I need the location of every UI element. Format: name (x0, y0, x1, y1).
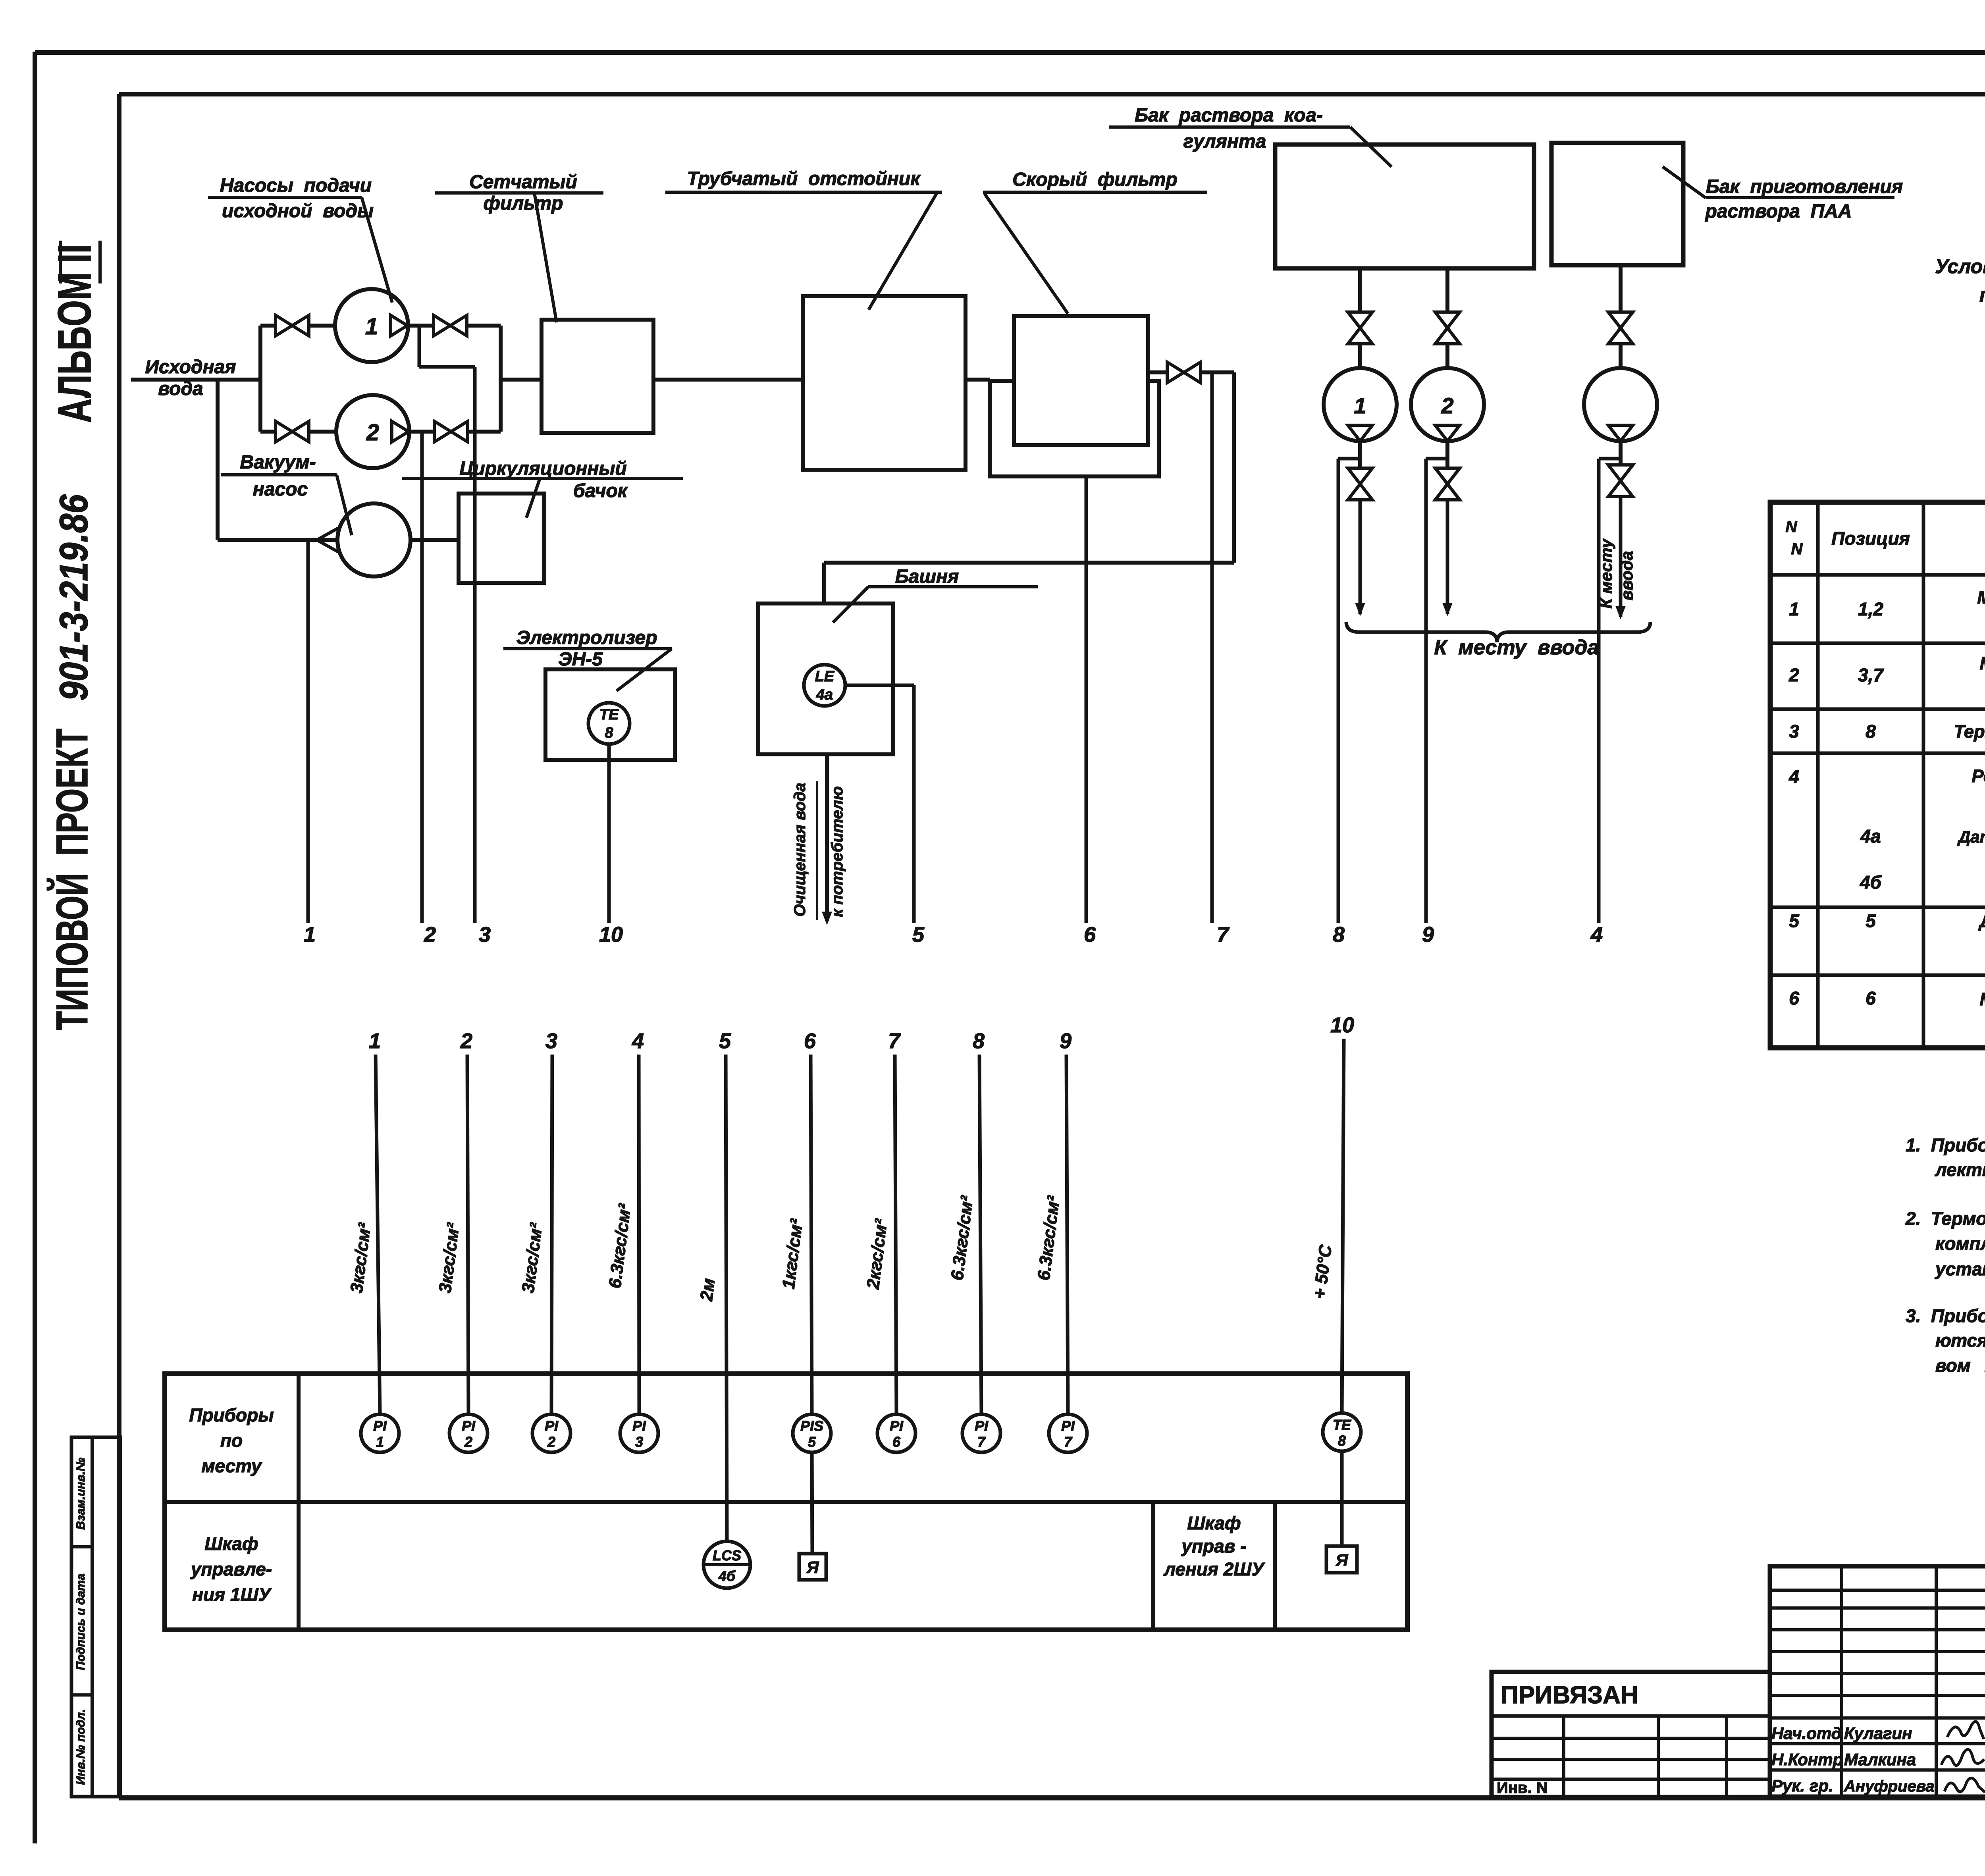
svg-text:по ОСТу 36. 27- 77.: по ОСТу 36. 27- 77. (1979, 284, 1985, 306)
svg-text:1. Прибор поз. 6 поставляет: 1. Прибор поз. 6 поставляется комп- (1906, 1135, 1985, 1155)
svg-text:901-3-219.86: 901-3-219.86 (52, 494, 96, 701)
svg-text:3: 3 (1789, 721, 1799, 742)
svg-text:4а: 4а (1860, 826, 1881, 846)
valve below pump (1348, 468, 1372, 484)
svg-text:Термометр технический: Термометр технический (1954, 721, 1985, 742)
svg-text:3: 3 (545, 1029, 557, 1053)
svg-text:5: 5 (1866, 910, 1876, 931)
pipe strainer to settler (653, 378, 803, 382)
svg-text:PI: PI (632, 1418, 646, 1434)
pipe discharge header (499, 326, 503, 432)
svg-text:PI: PI (462, 1418, 476, 1434)
impulse jog (1338, 457, 1360, 461)
svg-text:6: 6 (892, 1434, 901, 1450)
instrument LCS 4б (703, 1541, 750, 1588)
svg-text:ления 2ШУ: ления 2ШУ (1163, 1559, 1265, 1579)
leader to strainer (534, 193, 557, 322)
pipe settler to fast filter (966, 378, 990, 382)
svg-text:2: 2 (464, 1434, 472, 1450)
svg-text:АЛЬБОМ II: АЛЬБОМ II (48, 244, 101, 423)
svg-text:8: 8 (605, 725, 613, 741)
svg-text:1: 1 (369, 1029, 381, 1053)
svg-text:7: 7 (1064, 1434, 1073, 1450)
svg-text:Насосы подачи: Насосы подачи (220, 175, 372, 196)
PAA tank (1551, 143, 1683, 265)
fast filter outer box (990, 381, 1159, 476)
svg-text:ввода: ввода (1617, 551, 1636, 601)
svg-text:Очищенная вода: Очищенная вода (791, 783, 809, 916)
leader to electrolyzer (617, 649, 672, 691)
svg-text:Манометр технический,: Манометр технический, (1977, 587, 1985, 607)
outer border top (35, 50, 1985, 55)
svg-text:7: 7 (1217, 923, 1230, 947)
pipe pump2 suction (260, 430, 276, 434)
svg-text:установкой ЭН-5.: установкой ЭН-5. (1935, 1259, 1985, 1279)
coagulant tank (1275, 145, 1534, 268)
svg-text:Манометр технический: Манометр технический (1980, 653, 1985, 673)
instrument PI 2b (532, 1414, 570, 1452)
instrument PI 2 (449, 1414, 488, 1452)
svg-text:Инв. N: Инв. N (1497, 1779, 1548, 1797)
svg-text:Ануфриева: Ануфриева (1844, 1778, 1935, 1795)
svg-text:Я: Я (1336, 1551, 1349, 1569)
svg-text:Скорый фильтр: Скорый фильтр (1012, 169, 1178, 190)
svg-text:1: 1 (376, 1434, 384, 1450)
pump outlet cone (1435, 425, 1460, 441)
impulse line 6 (1085, 476, 1088, 923)
svg-text:3кгс/см²: 3кгс/см² (435, 1221, 463, 1294)
svg-text:9: 9 (1060, 1029, 1072, 1053)
fast filter inner box (1014, 316, 1148, 445)
leader to pump 1 (362, 197, 392, 303)
impulse line 9 (1424, 459, 1428, 923)
svg-text:ПРИВЯЗАН: ПРИВЯЗАН (1501, 1681, 1638, 1709)
pipe down to tower line (1232, 372, 1236, 563)
valve filter outlet (1167, 362, 1184, 383)
left inventory strip (71, 1437, 120, 1797)
svg-text:исходной воды: исходной воды (222, 201, 374, 222)
leader to coagulant tank (1350, 127, 1391, 167)
svg-text:6: 6 (1866, 988, 1876, 1008)
inner frame top (119, 92, 1985, 96)
svg-text:1,2: 1,2 (1858, 599, 1883, 619)
svg-text:6: 6 (1084, 923, 1096, 947)
svg-text:8: 8 (1866, 721, 1876, 742)
pump outlet cone (1608, 425, 1633, 441)
lamp box Я (2ШУ) (1326, 1546, 1357, 1573)
svg-text:8: 8 (1338, 1433, 1346, 1449)
svg-text:Трубчатый отстойник: Трубчатый отстойник (687, 168, 921, 189)
svg-text:3кгс/см²: 3кгс/см² (518, 1221, 546, 1294)
svg-text:Манометр технический: Манометр технический (1980, 989, 1985, 1009)
svg-text:PI: PI (975, 1418, 989, 1434)
svg-text:N: N (1786, 518, 1798, 536)
svg-text:2: 2 (1788, 665, 1799, 685)
svg-text:ния 1ШУ: ния 1ШУ (192, 1584, 272, 1605)
valve tank outlet (1435, 312, 1460, 328)
svg-text:8: 8 (973, 1029, 985, 1053)
svg-text:Условные обозначения приборо: Условные обозначения приборов (1935, 255, 1985, 278)
svg-text:4б: 4б (718, 1568, 736, 1584)
svg-text:6.3кгс/см²: 6.3кгс/см² (605, 1202, 635, 1290)
svg-text:Датчики: 2м - 1шт., 1.6м - 1шт: Датчики: 2м - 1шт., 1.6м - 1шт, (1957, 827, 1985, 846)
pipe filter outlet (1148, 370, 1167, 374)
dosing line with arrow (1619, 497, 1623, 617)
valve below pump (1435, 468, 1460, 484)
svg-text:1: 1 (1354, 393, 1366, 418)
svg-text:Регулятор- сигнализатор: Регулятор- сигнализатор (1972, 766, 1985, 786)
tubular settler box (803, 296, 966, 470)
pipe tank outlet (1358, 268, 1362, 312)
svg-text:Кулагин: Кулагин (1844, 1724, 1912, 1743)
svg-text:10: 10 (599, 923, 623, 947)
svg-text:10: 10 (1330, 1013, 1354, 1037)
pump1 discharge cone (391, 315, 407, 336)
instrument PI 1 (361, 1414, 399, 1452)
svg-text:Подпись и дата: Подпись и дата (74, 1573, 87, 1670)
stub line10 to lamp (1340, 1451, 1344, 1546)
dosing pump 2 (1411, 368, 1484, 441)
svg-text:7: 7 (977, 1434, 986, 1450)
valve below pump (1608, 465, 1633, 481)
tower drain pipe (825, 754, 829, 921)
pump2 discharge cone (392, 421, 409, 442)
svg-text:Исходная: Исходная (145, 357, 236, 378)
impulse line 3 (418, 326, 421, 367)
title block привязан (1492, 1672, 1770, 1797)
svg-text:6.3кгс/см²: 6.3кгс/см² (1034, 1194, 1064, 1282)
impulse line 1 (306, 540, 310, 923)
pipe tank outlet (1445, 268, 1449, 312)
svg-text:месту: месту (201, 1456, 262, 1476)
leader to circulation tank (526, 478, 540, 518)
dosing pump 1 (1324, 368, 1397, 441)
pump outlet cone (1348, 425, 1372, 441)
svg-text:1: 1 (304, 923, 316, 947)
svg-text:6.3кгс/см²: 6.3кгс/см² (947, 1194, 977, 1282)
svg-text:3: 3 (635, 1434, 643, 1450)
impulse line 7 (1210, 372, 1214, 923)
svg-text:К месту ввода: К месту ввода (1434, 636, 1599, 659)
leader to PAA tank (1663, 167, 1706, 198)
svg-text:Инв.№ подл.: Инв.№ подл. (74, 1709, 87, 1785)
level transmitter LE 4a (804, 665, 845, 706)
svg-text:Малкина: Малкина (1844, 1750, 1916, 1769)
pump 1 (335, 289, 408, 362)
pipe vacuum suction vertical (216, 380, 220, 540)
svg-text:насос: насос (253, 479, 308, 500)
svg-text:Шкаф: Шкаф (1187, 1513, 1241, 1533)
pipe pump1 suction (260, 324, 276, 328)
pipe main inlet (131, 378, 260, 382)
svg-text:5: 5 (719, 1029, 731, 1053)
brace к месту ввода (1346, 622, 1650, 642)
instrument TE 8 (1323, 1413, 1361, 1451)
svg-text:2. Термометр поз. 8 поставл: 2. Термометр поз. 8 поставляется (1905, 1208, 1985, 1229)
svg-text:4: 4 (1590, 923, 1603, 947)
svg-text:бачок: бачок (573, 480, 628, 501)
svg-text:9: 9 (1422, 923, 1434, 947)
dosing line with arrow (1359, 500, 1362, 614)
svg-text:5: 5 (808, 1434, 816, 1450)
inner frame bottom (119, 1795, 1985, 1801)
outer border left (33, 52, 37, 1843)
pipe to strainer (501, 378, 542, 382)
pipe pump1 discharge (407, 324, 434, 328)
svg-text:Циркуляционный: Циркуляционный (459, 458, 626, 479)
pipe into tower top (822, 563, 826, 604)
svg-text:Я: Я (806, 1558, 819, 1577)
svg-text:4: 4 (1788, 766, 1799, 787)
pipe pump down (1358, 441, 1362, 468)
valve pump2 discharge (434, 421, 451, 442)
svg-text:Вакуум-: Вакуум- (240, 452, 316, 473)
impulse line 2 (420, 432, 424, 923)
pipe vacuum suction horizontal (218, 538, 338, 542)
svg-text:ются комплектно с устройст-: ются комплектно с устройст- (1935, 1330, 1985, 1351)
svg-text:4а: 4а (816, 686, 833, 703)
impulse line 10 (607, 744, 611, 923)
pipe tank outlet (1619, 265, 1623, 312)
svg-text:Бак раствора коа-: Бак раствора коа- (1135, 105, 1323, 126)
pipe to tower (824, 561, 1234, 565)
dosing pump PAA (1584, 368, 1657, 441)
vacuum pump (337, 503, 410, 576)
impulse line 5 (912, 685, 916, 923)
svg-text:PI: PI (890, 1418, 904, 1434)
svg-text:7: 7 (888, 1029, 901, 1053)
svg-text:+ 50°C: + 50°C (1310, 1243, 1336, 1300)
svg-text:8: 8 (1333, 923, 1345, 947)
svg-text:вом ЛУР.: вом ЛУР. (1935, 1355, 1985, 1376)
svg-text:1: 1 (1789, 599, 1799, 619)
svg-text:к потребителю: к потребителю (829, 786, 846, 917)
svg-text:N: N (1791, 540, 1803, 558)
leader to fast filter (985, 194, 1068, 314)
svg-text:ТИПОВОЙ ПРОЕКТ: ТИПОВОЙ ПРОЕКТ (47, 729, 97, 1030)
valve tank outlet (1348, 312, 1372, 328)
svg-text:раствора ПАА: раствора ПАА (1704, 201, 1852, 222)
leader to tower (833, 587, 868, 623)
valve pump1 suction (276, 315, 292, 336)
stub LE to line5 (845, 684, 914, 687)
svg-text:2: 2 (547, 1434, 555, 1450)
svg-text:PIS: PIS (800, 1418, 823, 1434)
pipe vacuum to circulation tank (410, 538, 459, 542)
svg-text:фильтр: фильтр (484, 193, 563, 214)
impulse line 4 (1597, 459, 1601, 923)
svg-text:3кгс/см²: 3кгс/см² (347, 1221, 374, 1294)
instrument PI 7 (962, 1414, 1000, 1452)
vacuum pump inlet cone (317, 528, 338, 552)
svg-text:PI: PI (1061, 1418, 1075, 1434)
leader to vacuum pump (337, 475, 352, 535)
impulse jog (1599, 457, 1621, 461)
tower box (758, 603, 893, 754)
valve pump1 discharge (434, 315, 450, 336)
svg-text:TE: TE (1333, 1417, 1351, 1433)
svg-text:2: 2 (424, 923, 436, 947)
svg-text:PI: PI (373, 1418, 387, 1434)
svg-text:Приборы: Приборы (189, 1405, 274, 1425)
instrument table (1770, 502, 1985, 1048)
svg-text:Рук. гр.: Рук. гр. (1771, 1776, 1833, 1795)
svg-text:Нач.отд: Нач.отд (1771, 1724, 1842, 1743)
title block central grid (1770, 1566, 1985, 1797)
svg-text:Взам.инв.№: Взам.инв.№ (74, 1458, 87, 1529)
temperature element TE 8 (588, 703, 630, 744)
svg-text:управле-: управле- (190, 1559, 272, 1579)
instrument PI 6 (877, 1414, 915, 1452)
dosing line with arrow (1446, 500, 1449, 614)
svg-text:PI: PI (545, 1418, 559, 1434)
svg-text:Бак приготовления: Бак приготовления (1706, 176, 1903, 197)
svg-text:LE: LE (815, 668, 835, 685)
svg-text:LCS: LCS (713, 1547, 741, 1564)
pump 2 (336, 395, 409, 468)
svg-text:управ -: управ - (1181, 1536, 1246, 1556)
svg-text:4б: 4б (1860, 872, 1882, 893)
pipe pump2 discharge (409, 430, 434, 434)
svg-text:Электролизер: Электролизер (516, 627, 657, 648)
inner frame left (117, 94, 121, 1798)
instrument PI 7b (1049, 1414, 1087, 1452)
impulse line 8 (1337, 459, 1340, 923)
strainer filter box (542, 320, 653, 433)
instruments band (165, 1374, 1407, 1630)
svg-text:5: 5 (912, 923, 925, 947)
lamp box Я (1ШУ) (799, 1554, 826, 1580)
svg-text:Позиция: Позиция (1831, 528, 1910, 549)
circulation tank (459, 494, 544, 583)
svg-text:4: 4 (632, 1029, 644, 1053)
svg-text:ЭН-5: ЭН-5 (558, 649, 603, 670)
svg-text:Н.Контр: Н.Контр (1771, 1750, 1843, 1769)
valve tank outlet (1608, 312, 1633, 328)
svg-text:лектно с установкой „ Стру: лектно с установкой „ Струя ". (1935, 1159, 1985, 1180)
electrolyzer box (545, 669, 675, 760)
svg-text:1: 1 (365, 314, 378, 339)
svg-text:TE: TE (599, 706, 619, 723)
instrument PI 3 (620, 1414, 658, 1452)
impulse jog (1426, 457, 1447, 461)
svg-text:гулянта: гулянта (1183, 131, 1266, 152)
svg-text:6: 6 (804, 1029, 816, 1053)
leader to settler (869, 193, 937, 310)
svg-text:Датчик - реле разности: Датчик - реле разности (1978, 911, 1985, 931)
svg-text:3: 3 (479, 923, 491, 947)
svg-text:3,7: 3,7 (1858, 665, 1884, 685)
svg-text:6: 6 (1789, 988, 1799, 1008)
svg-text:2кгс/см²: 2кгс/см² (863, 1217, 891, 1291)
pipe pump down (1445, 441, 1449, 468)
svg-text:Сетчатый: Сетчатый (469, 172, 577, 193)
pipe pump down (1619, 441, 1623, 465)
svg-text:по: по (220, 1430, 243, 1451)
instrument PIS 5 (793, 1414, 831, 1452)
stub line6 to lamp (812, 1452, 812, 1554)
svg-text:2: 2 (1441, 393, 1453, 418)
svg-text:2: 2 (366, 420, 379, 445)
svg-text:комплектно с электролизной: комплектно с электролизной (1935, 1233, 1985, 1254)
svg-text:2м: 2м (697, 1277, 719, 1303)
svg-text:2: 2 (460, 1029, 472, 1053)
svg-text:Шкаф: Шкаф (204, 1533, 258, 1554)
svg-text:3. Приборы поз. 4 и поз. 5: 3. Приборы поз. 4 и поз. 5 поставля- (1906, 1305, 1985, 1326)
svg-text:1кгс/см²: 1кгс/см² (779, 1217, 806, 1290)
svg-text:Башня: Башня (895, 566, 959, 587)
pipe bypass vertical (258, 326, 262, 432)
svg-text:5: 5 (1789, 910, 1800, 931)
valve pump2 suction (276, 421, 292, 442)
